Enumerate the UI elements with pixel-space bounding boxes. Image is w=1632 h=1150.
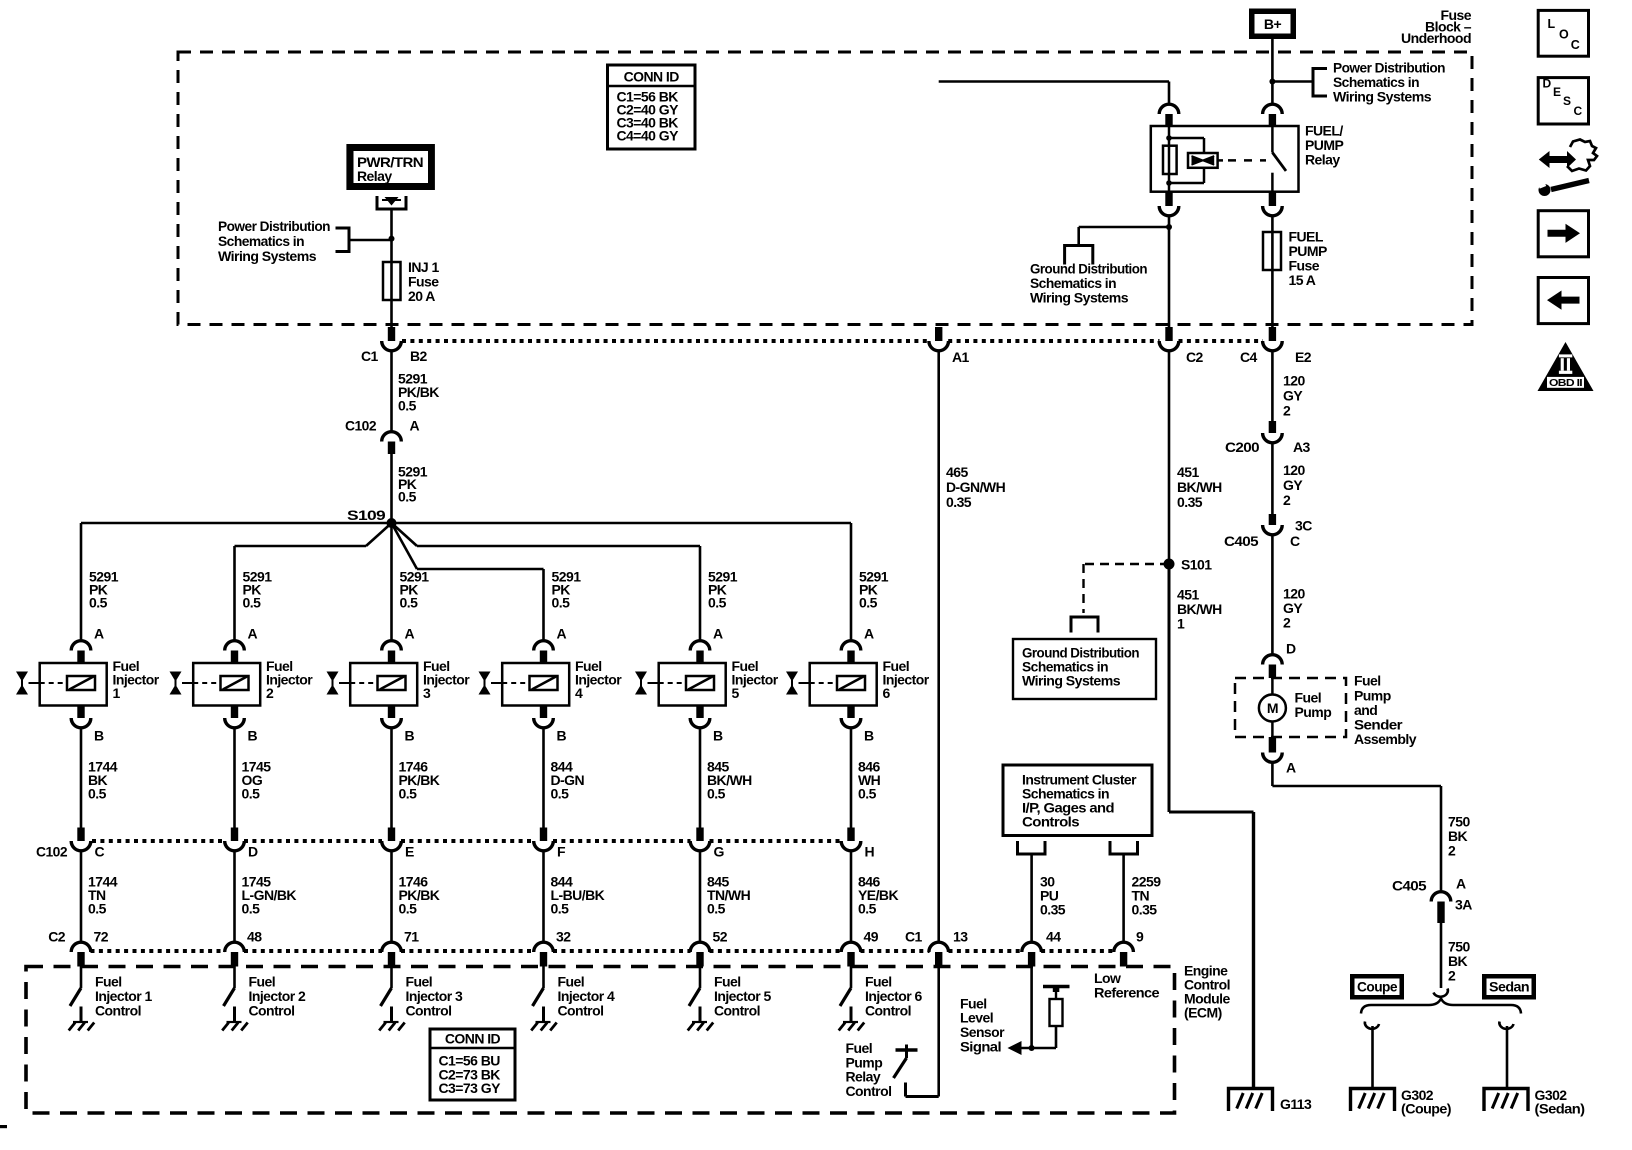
pin relay coil terminal xyxy=(1165,114,1172,127)
wire B+ down to relay xyxy=(1271,39,1274,105)
node coil bottom junction xyxy=(1166,180,1172,186)
ground injector 5 driver xyxy=(688,1022,714,1031)
relay switch blade xyxy=(1272,126,1286,192)
svg-text:0.35: 0.35 xyxy=(1177,494,1203,510)
wire 1744 BK from injector 1 xyxy=(80,728,83,828)
wire feed to injector 4 xyxy=(542,569,545,641)
bracket instrument cluster lead 44 xyxy=(1018,841,1046,854)
svg-text:1: 1 xyxy=(113,685,121,701)
label wire 5291 PK 0.5 (injector 6) xyxy=(859,569,889,611)
pin ECM 71 xyxy=(388,952,395,967)
pin connector C102 terminal D xyxy=(231,828,238,842)
svg-text:0.5: 0.5 xyxy=(708,595,727,611)
svg-text:Signal: Signal xyxy=(960,1039,1001,1055)
svg-text:(Sedan): (Sedan) xyxy=(1535,1101,1585,1117)
wire feed to injector 5 xyxy=(699,546,702,641)
svg-text:Control: Control xyxy=(249,1003,295,1019)
fuse FUEL PUMP Fuse 15 A xyxy=(1263,232,1281,270)
svg-text:2: 2 xyxy=(1283,492,1291,508)
svg-text:G113: G113 xyxy=(1280,1096,1312,1112)
wire to G302 coupe xyxy=(1371,1026,1374,1088)
pin connector C102 terminal C xyxy=(77,828,84,842)
pin ECM 9 xyxy=(1120,952,1127,967)
connector relay switch terminal (female) xyxy=(1263,104,1283,114)
svg-text:20 A: 20 A xyxy=(408,288,435,304)
svg-text:C405: C405 xyxy=(1392,878,1427,894)
connector ECM pin 49 (female) xyxy=(841,942,861,952)
svg-text:C4: C4 xyxy=(1240,349,1258,365)
svg-text:465: 465 xyxy=(946,464,968,480)
svg-text:Coupe: Coupe xyxy=(1357,979,1398,995)
svg-text:6: 6 xyxy=(883,685,891,701)
wire 844 L-BU/BK to ECM xyxy=(542,851,545,944)
label wire 30 PU 0.35 xyxy=(1040,874,1066,918)
wire 2259 TN xyxy=(1122,854,1125,943)
svg-text:0.5: 0.5 xyxy=(242,901,261,917)
node B+ junction xyxy=(1269,79,1275,85)
svg-text:G: G xyxy=(714,844,725,860)
splice option hook (sedan) xyxy=(1499,1022,1513,1029)
label wire 120 GY 2 (pump) xyxy=(1283,586,1305,631)
svg-text:0.5: 0.5 xyxy=(88,786,107,802)
label wire 844 D-GN 0.5 xyxy=(551,759,585,802)
pin relay output coil side xyxy=(1165,192,1172,206)
wire feed to injector 1 xyxy=(80,523,83,641)
svg-text:0.35: 0.35 xyxy=(1132,902,1158,918)
relay actuator valve symbol xyxy=(1188,153,1223,168)
svg-text:0.5: 0.5 xyxy=(551,901,570,917)
connector ECM pin 13 (female) xyxy=(929,942,949,952)
label wire 750 BK 2 (upper) xyxy=(1448,814,1470,859)
dotted connector row C2/ECM xyxy=(91,949,1115,953)
driver fuel pump relay control xyxy=(894,1045,918,1079)
connector injector 2 terminal B (female) xyxy=(225,718,245,728)
label wire 451 BK/WH 0.35 xyxy=(1177,464,1222,510)
connector C102 (female) xyxy=(382,432,402,442)
node coil top junction xyxy=(1166,135,1172,141)
wire feed to injector 2 xyxy=(233,546,236,641)
connector C2 (female) xyxy=(1159,341,1179,351)
connector A1 (female) xyxy=(929,341,949,351)
label wire 451 BK/WH 1 xyxy=(1177,587,1222,632)
svg-text:Relay: Relay xyxy=(357,168,392,184)
svg-text:Reference: Reference xyxy=(1094,985,1160,1001)
pin pump terminal A xyxy=(1269,737,1276,753)
label Fuel Injector 6 xyxy=(883,658,930,701)
wire feed to injector 3 xyxy=(390,523,393,641)
relay PWR/TRN Relay box xyxy=(346,144,435,190)
svg-text:C: C xyxy=(1574,104,1583,118)
bracket ground distribution reference xyxy=(1065,246,1093,265)
label wire 120 GY 2 (E2) xyxy=(1283,373,1305,419)
svg-text:C1: C1 xyxy=(361,348,379,364)
label Fuel Injector 1 Control xyxy=(95,974,153,1019)
svg-text:13: 13 xyxy=(953,929,968,945)
dotted fuse block connector row xyxy=(402,339,1263,343)
label wire 1744 BK 0.5 xyxy=(88,759,118,802)
pin connector C2 xyxy=(1165,327,1172,341)
connector pump terminal A (female) xyxy=(1263,753,1283,763)
ECM dashed boundary box xyxy=(26,967,1175,1114)
svg-text:E2: E2 xyxy=(1295,349,1312,365)
svg-text:CONN ID: CONN ID xyxy=(445,1031,501,1047)
label wire 5291 PK/BK 0.5 xyxy=(398,370,439,413)
svg-text:0.5: 0.5 xyxy=(89,595,108,611)
svg-text:Controls: Controls xyxy=(1022,814,1080,830)
svg-text:C405: C405 xyxy=(1224,533,1259,549)
pin pump terminal D xyxy=(1269,665,1276,679)
connector C102 terminal F (female) xyxy=(534,841,554,851)
connector ECM pin 72 (female) xyxy=(71,942,91,952)
pin connector A1 xyxy=(935,327,942,341)
pin connector C102 terminal G xyxy=(696,828,703,842)
connector relay output coil side xyxy=(1159,206,1179,216)
label wire 750 BK 2 (lower) xyxy=(1448,939,1470,984)
ground injector 6 driver xyxy=(839,1022,865,1031)
icon DESC xyxy=(1538,76,1588,124)
svg-text:32: 32 xyxy=(556,929,571,945)
connector harness symbol injector 4 xyxy=(479,672,491,695)
svg-text:A: A xyxy=(713,626,723,642)
svg-text:C: C xyxy=(1290,533,1300,549)
label wire 1745 L-GN/BK 0.5 xyxy=(242,874,297,917)
splice option hook (top) xyxy=(1434,989,1448,997)
relay coil xyxy=(1163,126,1177,192)
pin ECM 13 xyxy=(935,952,942,967)
label Fuel Injector 4 Control xyxy=(558,974,616,1019)
relay FUEL/PUMP Relay box xyxy=(1151,126,1299,192)
svg-text:0.35: 0.35 xyxy=(1040,902,1066,918)
svg-text:3: 3 xyxy=(423,685,431,701)
pin injector 1 terminal B xyxy=(77,706,84,719)
svg-text:0.5: 0.5 xyxy=(399,786,418,802)
svg-text:C: C xyxy=(95,844,105,860)
driver fuel injector 2 control xyxy=(224,967,235,1023)
connector injector 6 terminal B (female) xyxy=(841,718,861,728)
label Low Reference xyxy=(1094,970,1160,1001)
svg-text:1: 1 xyxy=(1177,616,1185,632)
driver fuel injector 5 control xyxy=(689,967,700,1023)
connector ECM pin 9 (female) xyxy=(1114,942,1134,952)
label FUEL/PUMP Relay xyxy=(1305,123,1343,168)
svg-text:A: A xyxy=(557,626,567,642)
connector injector 4 terminal A (female) xyxy=(534,641,554,651)
svg-text:B: B xyxy=(713,728,723,744)
wire 5291 PK/BK xyxy=(390,352,393,433)
connector pump terminal D (female) xyxy=(1263,655,1283,665)
box Instrument Cluster Schematics in I/P, Gages and Controls xyxy=(1003,765,1152,836)
svg-text:C: C xyxy=(1571,38,1580,52)
svg-text:B: B xyxy=(248,728,258,744)
connector harness symbol injector 5 xyxy=(635,672,647,695)
wire 120 GY from E2 xyxy=(1271,352,1274,422)
connector injector 4 terminal B (female) xyxy=(534,718,554,728)
svg-text:4: 4 xyxy=(575,685,583,701)
connector harness symbol injector 6 xyxy=(786,672,798,695)
pin relay output switch side xyxy=(1269,192,1276,206)
label wire 844 L-BU/BK 0.5 xyxy=(551,874,605,917)
connector injector 2 terminal A (female) xyxy=(225,641,245,651)
label wire 1744 TN 0.5 xyxy=(88,874,118,917)
label Fuel Level Sensor Signal xyxy=(960,996,1005,1055)
pin connector C102 terminal H xyxy=(847,828,854,842)
connector harness symbol injector 3 xyxy=(327,672,339,695)
svg-text:3A: 3A xyxy=(1455,897,1472,913)
bracket power distribution reference xyxy=(1313,69,1327,97)
pin connector C102 terminal F xyxy=(540,828,547,842)
wire 1746 PK/BK from injector 3 xyxy=(390,728,393,828)
wire 846 WH from injector 6 xyxy=(850,728,853,828)
label Power Distribution Schematics in Wiring Systems (left) xyxy=(218,218,330,264)
svg-text:H: H xyxy=(865,844,875,860)
svg-text:Fuel: Fuel xyxy=(1354,673,1381,689)
wire 5291 PK to splice S109 xyxy=(390,454,393,523)
wire 30 PU xyxy=(1030,854,1033,943)
pin injector 3 terminal B xyxy=(388,706,395,719)
svg-text:A: A xyxy=(94,626,104,642)
svg-text:Wiring Systems: Wiring Systems xyxy=(1030,290,1129,306)
pin ECM 52 xyxy=(696,952,703,967)
svg-text:2: 2 xyxy=(266,685,274,701)
svg-text:2: 2 xyxy=(1448,968,1456,984)
pin injector 4 terminal B xyxy=(540,706,547,719)
label Fuel Injector 2 xyxy=(266,658,313,701)
svg-text:0.5: 0.5 xyxy=(88,901,107,917)
svg-text:B: B xyxy=(94,728,104,744)
svg-text:B2: B2 xyxy=(410,348,428,364)
box Coupe xyxy=(1350,974,1404,1000)
wire relay control feed across top xyxy=(939,80,1169,83)
pin injector 5 terminal A xyxy=(696,651,703,664)
svg-text:D: D xyxy=(1543,76,1552,90)
connector injector 3 terminal A (female) xyxy=(382,641,402,651)
label wire 845 TN/WH 0.5 xyxy=(707,874,751,917)
svg-text:0.5: 0.5 xyxy=(398,489,417,505)
wire 451 BK/WH 1 to G113 xyxy=(1169,564,1254,1088)
label wire 1746 PK/BK 0.5 xyxy=(399,874,440,917)
fuel pump and sender assembly dashed box xyxy=(1235,678,1346,737)
driver fuel injector 3 control xyxy=(381,967,392,1023)
brace coupe/sedan options xyxy=(1361,999,1521,1014)
svg-text:5: 5 xyxy=(732,685,740,701)
svg-text:E: E xyxy=(405,844,414,860)
pin connector C102 terminal E xyxy=(388,828,395,842)
svg-text:C2: C2 xyxy=(48,929,66,945)
svg-text:S109: S109 xyxy=(347,507,386,523)
pin ECM 72 xyxy=(77,952,84,967)
svg-text:GY: GY xyxy=(1283,477,1303,493)
wire 1745 L-GN/BK to ECM xyxy=(233,851,236,944)
fuel injector 4 xyxy=(491,663,569,706)
svg-text:(Coupe): (Coupe) xyxy=(1401,1101,1451,1117)
label wire 5291 PK 0.5 xyxy=(398,464,428,505)
label FUEL PUMP Fuse 15 A xyxy=(1289,229,1327,289)
motor fuel pump xyxy=(1259,678,1286,737)
table CONN ID (fuse block) xyxy=(608,65,696,149)
svg-text:E: E xyxy=(1553,85,1561,99)
svg-text:O: O xyxy=(1559,28,1569,42)
svg-text:C200: C200 xyxy=(1225,439,1260,455)
connector C405 (female) xyxy=(1263,525,1283,535)
connector harness symbol injector 1 xyxy=(16,672,28,695)
resistor ECM pull-up xyxy=(1043,987,1070,1027)
connector C102 terminal C (female) xyxy=(71,841,91,851)
label Fuel Injector 3 xyxy=(423,658,470,701)
wire fuel level sensor signal inside ECM xyxy=(1020,967,1056,1049)
label wire 846 YE/BK 0.5 xyxy=(858,874,898,917)
pin ECM 49 xyxy=(847,952,854,967)
svg-text:72: 72 xyxy=(94,929,109,945)
label Power Distribution Schematics in Wiring Systems (right) xyxy=(1333,60,1445,105)
ground injector 3 driver xyxy=(379,1022,405,1031)
svg-text:C3=73 GY: C3=73 GY xyxy=(439,1080,502,1096)
symbol relay output splice bracket xyxy=(376,196,408,211)
icon forward arrow xyxy=(1538,211,1588,257)
label INJ 1 Fuse 20 A xyxy=(408,259,439,304)
splice option hook (coupe) xyxy=(1365,1022,1379,1029)
fuel injector 2 xyxy=(182,663,260,706)
svg-text:15 A: 15 A xyxy=(1289,272,1316,288)
svg-text:B+: B+ xyxy=(1264,16,1282,32)
wire relay switch output down xyxy=(1271,216,1274,331)
connector injector 5 terminal A (female) xyxy=(690,641,710,651)
node splice S109 xyxy=(387,518,397,528)
svg-text:0.5: 0.5 xyxy=(243,595,262,611)
label Ground Distribution Schematics in Wiring Systems (upper) xyxy=(1030,261,1147,306)
label Fuse Block - Underhood xyxy=(1401,7,1472,46)
node ground distribution tap xyxy=(1166,224,1172,230)
pin injector 2 terminal A xyxy=(231,651,238,664)
svg-text:C4=40 GY: C4=40 GY xyxy=(617,128,680,144)
pin ECM 44 xyxy=(1028,952,1035,967)
connector C405 lower (female) xyxy=(1431,892,1451,902)
wire 846 YE/BK to ECM xyxy=(850,851,853,944)
connector relay coil terminal (female) xyxy=(1159,104,1179,114)
svg-text:Wiring Systems: Wiring Systems xyxy=(1022,673,1121,689)
svg-text:L: L xyxy=(1548,17,1556,31)
pin connector C405 xyxy=(1269,514,1276,525)
fuel injector 3 xyxy=(339,663,417,706)
wire 750 BK 2 to grounds xyxy=(1440,923,1443,988)
pin C405 lower xyxy=(1437,902,1444,924)
svg-text:0.5: 0.5 xyxy=(551,786,570,802)
svg-text:Wiring Systems: Wiring Systems xyxy=(1333,89,1432,105)
svg-text:451: 451 xyxy=(1177,464,1199,480)
wire branch to injector 2 xyxy=(235,523,392,546)
svg-text:Control: Control xyxy=(846,1083,892,1099)
node fuel level signal junction xyxy=(1029,1045,1035,1051)
label Fuel Pump and Sender Assembly xyxy=(1354,673,1417,748)
svg-text:120: 120 xyxy=(1283,462,1305,478)
svg-text:S101: S101 xyxy=(1181,557,1212,573)
svg-text:OBD II: OBD II xyxy=(1549,378,1583,389)
label Engine Control Module (ECM) xyxy=(1184,963,1230,1021)
label wire 120 GY 2 (C200) xyxy=(1283,462,1305,508)
connector C4/E2 (female) xyxy=(1263,341,1283,351)
dotted connector row C102 xyxy=(92,839,842,843)
ground G302 (Sedan) xyxy=(1484,1089,1528,1112)
pin ECM 32 xyxy=(540,952,547,967)
svg-text:0.35: 0.35 xyxy=(946,494,972,510)
pin injector 5 terminal B xyxy=(696,706,703,719)
svg-text:0.5: 0.5 xyxy=(400,595,419,611)
connector harness symbol injector 2 xyxy=(170,672,182,695)
bracket power distribution reference (left) xyxy=(336,228,350,252)
wire branch to injector 5 xyxy=(392,523,701,546)
svg-text:A: A xyxy=(864,626,874,642)
wire to G302 sedan xyxy=(1506,1026,1509,1088)
driver fuel injector 1 control xyxy=(70,967,81,1023)
pin injector 6 terminal B xyxy=(847,706,854,719)
svg-text:71: 71 xyxy=(404,929,419,945)
svg-text:Schematics in: Schematics in xyxy=(218,233,304,249)
ground injector 1 driver xyxy=(69,1022,95,1031)
connector ECM pin 48 (female) xyxy=(225,942,245,952)
connector relay output switch side xyxy=(1263,206,1283,216)
wire dashed actuator link xyxy=(1228,159,1266,162)
wire branch to injector 4 xyxy=(392,523,544,569)
label Fuel Injector 1 xyxy=(113,658,160,701)
label Fuel Pump Relay Control xyxy=(846,1040,892,1099)
svg-text:BK/WH: BK/WH xyxy=(1177,479,1222,495)
label wire 2259 TN 0.35 xyxy=(1132,874,1162,918)
fuse INJ 1 Fuse 20 A xyxy=(383,262,401,300)
arrow fuel level sensor signal xyxy=(1008,1041,1022,1055)
svg-text:B: B xyxy=(405,728,415,744)
label wire 1746 PK/BK 0.5 xyxy=(399,759,440,802)
svg-text:B: B xyxy=(864,728,874,744)
wire PWR/TRN relay output down xyxy=(390,211,393,331)
svg-text:S: S xyxy=(1563,94,1571,108)
ground injector 4 driver xyxy=(531,1022,557,1031)
wire 844 D-GN from injector 4 xyxy=(542,728,545,828)
connector ECM pin 44 (female) xyxy=(1022,942,1042,952)
connector C102 terminal G (female) xyxy=(690,841,710,851)
connector injector 5 terminal B (female) xyxy=(690,718,710,728)
svg-text:D-GN/WH: D-GN/WH xyxy=(946,479,1006,495)
fuel injector 5 xyxy=(648,663,726,706)
pin relay switch terminal xyxy=(1269,114,1276,127)
svg-text:Sedan: Sedan xyxy=(1489,979,1529,995)
fuel injector 1 xyxy=(29,663,107,706)
pin injector 2 terminal B xyxy=(231,706,238,719)
svg-text:Underhood: Underhood xyxy=(1401,30,1471,46)
connector C102 terminal H (female) xyxy=(841,841,861,851)
svg-text:0.5: 0.5 xyxy=(399,901,418,917)
connector C1/B2 (female) xyxy=(382,341,402,351)
svg-text:A3: A3 xyxy=(1293,439,1311,455)
label Fuel Injector 5 xyxy=(732,658,779,701)
svg-text:Wiring Systems: Wiring Systems xyxy=(218,248,317,264)
label wire 846 WH 0.5 xyxy=(858,759,881,802)
connector injector 1 terminal A (female) xyxy=(71,641,91,651)
label wire 1745 OG 0.5 xyxy=(242,759,272,802)
icon OBD II xyxy=(1538,342,1594,391)
pin connector C4/E2 xyxy=(1269,327,1276,341)
svg-text:A: A xyxy=(405,626,415,642)
bracket instrument cluster lead 9 xyxy=(1110,841,1138,854)
svg-text:3C: 3C xyxy=(1295,518,1312,534)
label Fuel Injector 5 Control xyxy=(714,974,772,1019)
wire 120 GY to C405 xyxy=(1271,443,1274,515)
table CONN ID (ECM) xyxy=(430,1029,515,1100)
svg-text:C2: C2 xyxy=(1186,349,1204,365)
wire 120 GY to fuel pump xyxy=(1271,535,1274,656)
ground injector 2 driver xyxy=(222,1022,248,1031)
svg-text:120: 120 xyxy=(1283,373,1305,389)
node splice S101 xyxy=(1164,559,1175,570)
svg-text:(ECM): (ECM) xyxy=(1184,1005,1222,1021)
